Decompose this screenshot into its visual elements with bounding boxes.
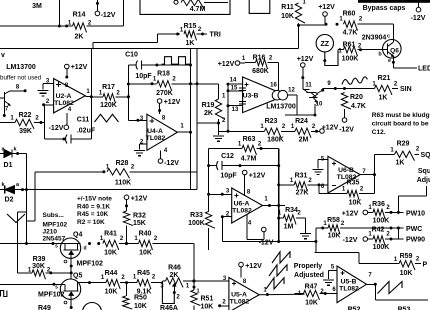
- svg-text:R21: R21: [378, 75, 391, 82]
- wire: [359, 263, 399, 265]
- svg-text:100K: 100K: [188, 220, 205, 227]
- svg-text:R31: R31: [295, 173, 308, 180]
- wire: [71, 138, 91, 140]
- svg-text:MPF102: MPF102: [38, 292, 65, 299]
- svg-text:4.7M: 4.7M: [241, 156, 257, 163]
- diode D1: [0, 153, 4, 155]
- op-amp U6-A: [232, 188, 263, 223]
- svg-text:e: e: [388, 58, 391, 64]
- wire pin2: [220, 305, 229, 307]
- svg-text:R40: R40: [139, 231, 152, 238]
- +12V terminal: [239, 262, 244, 267]
- resistor R17: [103, 94, 116, 104]
- wire: [398, 195, 426, 197]
- svg-text:10K: 10K: [104, 250, 117, 257]
- svg-text:R45 = 10K: R45 = 10K: [77, 211, 109, 218]
- wire pin3: [209, 193, 232, 195]
- resistor 4.7M: [181, 0, 204, 9]
- svg-text:R51: R51: [201, 296, 214, 303]
- wire: [12, 153, 26, 155]
- wire: [338, 49, 344, 51]
- svg-text:11: 11: [305, 83, 312, 89]
- wire: [157, 33, 180, 35]
- wire: [281, 130, 295, 132]
- svg-text:U2-A: U2-A: [56, 93, 72, 100]
- wire: [43, 105, 45, 139]
- wire pin4: [160, 150, 162, 158]
- wire: [397, 196, 399, 212]
- svg-text:PWC: PWC: [406, 226, 422, 233]
- wire: [279, 217, 284, 219]
- svg-text:D2: D2: [5, 197, 14, 204]
- square wave symbol: [162, 57, 191, 65]
- wire: [46, 272, 72, 274]
- wire U6-A out: [263, 205, 286, 207]
- triangle wave symbol: [95, 114, 119, 122]
- -12V terminal: [262, 227, 267, 232]
- svg-text:R52: R52: [348, 307, 361, 310]
- wire bus: [208, 149, 210, 212]
- svg-text:12: 12: [288, 88, 295, 94]
- svg-text:10K: 10K: [134, 303, 147, 310]
- ground: [323, 279, 334, 281]
- svg-text:+12V: +12V: [218, 61, 235, 68]
- svg-text:D1: D1: [4, 162, 13, 169]
- bus wire: [0, 48, 299, 50]
- svg-text:+12V: +12V: [297, 56, 314, 63]
- svg-text:J210: J210: [43, 229, 58, 236]
- svg-text:+12V: +12V: [71, 64, 88, 71]
- wire: [314, 252, 359, 254]
- wire: [305, 218, 307, 233]
- wire: [0, 25, 73, 27]
- resistor R58: [328, 225, 340, 235]
- wire U4-A out: [177, 131, 190, 133]
- svg-text:U4-A: U4-A: [147, 128, 163, 135]
- resistor R61: [344, 47, 358, 57]
- op-amp U5-A: [229, 278, 259, 310]
- svg-text:100K: 100K: [342, 56, 359, 63]
- wire: [320, 293, 338, 295]
- wire: [385, 211, 404, 213]
- wire: [58, 0, 60, 26]
- svg-text:R15: R15: [184, 23, 197, 30]
- svg-text:C12: C12: [221, 153, 234, 160]
- +12V terminal: [65, 64, 70, 69]
- ground: [134, 150, 145, 152]
- -12V terminal: [95, 11, 100, 16]
- svg-text:U3-B: U3-B: [243, 93, 259, 100]
- resistor R21: [375, 85, 392, 95]
- svg-text:R17: R17: [102, 84, 115, 91]
- svg-text:v: v: [1, 52, 5, 59]
- svg-text:-12V: -12V: [259, 240, 274, 247]
- wire: [70, 258, 72, 279]
- svg-text:R19: R19: [202, 102, 215, 109]
- wire pin5: [329, 269, 338, 271]
- wire: [296, 217, 306, 219]
- wire: [122, 0, 124, 26]
- wire: [374, 284, 376, 300]
- diode D2: [0, 189, 5, 191]
- wire U5-A out: [259, 293, 304, 296]
- svg-text:2M: 2M: [299, 137, 309, 144]
- component box: [140, 0, 230, 14]
- wire bus: [190, 49, 192, 190]
- chevron waveform mark: [7, 214, 25, 223]
- wire: [358, 23, 394, 25]
- wire: [0, 122, 15, 124]
- resistor R14: [73, 23, 87, 33]
- svg-text:R60: R60: [343, 11, 356, 18]
- +12V terminal: [157, 99, 162, 104]
- svg-text:10K: 10K: [139, 250, 152, 257]
- svg-text:buffer not used: buffer not used: [0, 75, 42, 82]
- wire: [208, 228, 210, 250]
- resistor R45: [137, 279, 151, 289]
- svg-text:ZZ: ZZ: [321, 41, 330, 48]
- wire pin2: [222, 216, 231, 218]
- svg-text:s: s: [55, 244, 58, 250]
- resistor R32: [123, 211, 133, 226]
- svg-text:100K: 100K: [373, 218, 390, 225]
- svg-text:R24: R24: [295, 118, 308, 125]
- svg-text:s: s: [55, 285, 58, 291]
- wire U2-A out: [85, 96, 91, 98]
- wire: [285, 114, 315, 116]
- panel pot circle: [83, 303, 102, 310]
- svg-text:C11: C11: [77, 117, 90, 124]
- svg-text:13: 13: [232, 107, 239, 113]
- wire gate Q4: [0, 243, 81, 245]
- wire: [358, 253, 360, 264]
- svg-text:4.7M: 4.7M: [190, 6, 206, 13]
- svg-text:R63 must be kludged: R63 must be kludged: [372, 112, 430, 119]
- -12V terminal: [418, 0, 420, 7]
- wire: [35, 171, 104, 173]
- svg-text:R59: R59: [400, 253, 413, 260]
- svg-text:Adjusted: Adjusted: [294, 272, 324, 279]
- svg-text:-12V: -12V: [101, 12, 116, 19]
- svg-text:R36: R36: [372, 201, 385, 208]
- wire pin13: [228, 105, 243, 107]
- jack ZZ: [316, 35, 333, 52]
- wire: [374, 154, 376, 193]
- svg-text:2K: 2K: [204, 110, 213, 117]
- wire bus: [90, 49, 92, 140]
- potentiometer R46 2K: [166, 278, 184, 288]
- resistor R31: [294, 182, 307, 192]
- wire: [116, 96, 129, 98]
- svg-text:R34: R34: [285, 207, 298, 214]
- svg-text:+12V: +12V: [342, 211, 359, 218]
- svg-text:R46A: R46A: [160, 305, 178, 310]
- op-amp U2-A: [54, 79, 86, 113]
- resistor R50: [123, 296, 133, 309]
- wire: [219, 130, 265, 132]
- svg-text:+12V: +12V: [245, 263, 262, 270]
- svg-text:.02uF: .02uF: [77, 128, 96, 135]
- wire U6-B out: [360, 174, 374, 176]
- svg-text:1: 1: [197, 289, 200, 295]
- svg-text:-12V: -12V: [164, 160, 179, 167]
- svg-text:10K: 10K: [105, 289, 118, 296]
- wire: [197, 122, 219, 124]
- svg-text:10K: 10K: [328, 233, 341, 240]
- op-amp U4-A: [147, 114, 178, 150]
- svg-text:Q5: Q5: [73, 273, 82, 280]
- wire: [315, 228, 317, 253]
- resistor R20: [341, 93, 351, 110]
- resistor R39: [32, 270, 46, 280]
- wire: [340, 227, 404, 229]
- -12V terminal: [342, 118, 347, 123]
- svg-text:R33: R33: [190, 212, 203, 219]
- svg-text:c: c: [387, 34, 390, 40]
- wire bus: [278, 149, 280, 242]
- wire: [323, 88, 375, 90]
- sawtooth symbol: [378, 282, 403, 294]
- svg-text:C10: C10: [125, 52, 138, 59]
- resistor R51: [191, 290, 201, 306]
- wire: [87, 25, 124, 27]
- svg-text:100K: 100K: [373, 244, 390, 251]
- wire: [222, 165, 279, 167]
- svg-text:TL082: TL082: [232, 208, 252, 215]
- wire to Q6 base: [358, 49, 388, 51]
- op-amp U5-B: [337, 266, 367, 303]
- svg-text:R49: R49: [38, 305, 51, 310]
- wire: [316, 227, 328, 229]
- svg-text:TRI: TRI: [210, 32, 221, 39]
- resistor R47: [304, 290, 320, 300]
- wire: [392, 24, 394, 37]
- svg-text:15K: 15K: [133, 220, 146, 227]
- wire: [318, 185, 320, 194]
- svg-text:+12V: +12V: [249, 173, 266, 180]
- wire: [299, 24, 327, 26]
- wire: [392, 56, 394, 68]
- wire pin16: [277, 63, 279, 92]
- wire gate Q5: [0, 283, 65, 285]
- svg-text:MPF102: MPF102: [43, 222, 68, 229]
- wire: [70, 299, 72, 308]
- wire: [26, 220, 35, 222]
- svg-text:R45: R45: [137, 270, 150, 277]
- wire: [172, 83, 219, 85]
- svg-text:2K: 2K: [75, 34, 84, 41]
- svg-text:+/-15V note: +/-15V note: [77, 196, 112, 203]
- resistor R24: [295, 128, 311, 138]
- svg-text:Q6: Q6: [390, 48, 399, 55]
- wire: [120, 282, 137, 284]
- resistor R22: [15, 119, 34, 129]
- svg-text:LED: LED: [418, 66, 430, 73]
- wire: [221, 217, 223, 242]
- svg-text:LM13700: LM13700: [266, 104, 296, 111]
- wire to LED: [393, 67, 417, 69]
- sine wave symbol: [342, 77, 367, 85]
- svg-text:1K: 1K: [379, 95, 388, 102]
- resistor R59: [399, 261, 415, 271]
- svg-text:circuit board to be pa: circuit board to be pa: [372, 121, 430, 128]
- wire: [14, 189, 197, 191]
- svg-text:Subs...: Subs...: [43, 212, 65, 219]
- svg-text:R32: R32: [133, 213, 146, 220]
- svg-text:R58: R58: [327, 217, 340, 224]
- wire: [426, 186, 428, 196]
- svg-text:Adju: Adju: [417, 177, 430, 184]
- svg-text:-12V: -12V: [343, 237, 358, 244]
- resistor R60: [344, 21, 358, 31]
- svg-text:30K: 30K: [32, 263, 45, 270]
- svg-text:-12V: -12V: [49, 125, 64, 132]
- wire: [128, 64, 135, 66]
- resistor R29: [395, 151, 415, 161]
- svg-text:R39: R39: [33, 256, 46, 263]
- op-amp U6-B: [328, 156, 360, 193]
- wire pin2: [44, 104, 54, 106]
- wire: [359, 193, 375, 195]
- wire: [209, 148, 242, 150]
- svg-text:R2 = 10K: R2 = 10K: [77, 219, 105, 226]
- svg-text:R40 = 9.1K: R40 = 9.1K: [77, 204, 110, 211]
- resistor R18: [157, 81, 172, 91]
- svg-text:16: 16: [270, 83, 277, 89]
- wire: [92, 43, 94, 49]
- wire: [130, 171, 198, 173]
- svg-text:R29: R29: [397, 141, 410, 148]
- wire pin14: [228, 83, 243, 85]
- ground: [38, 90, 49, 92]
- svg-text:R18: R18: [157, 71, 170, 78]
- wire pin5: [318, 159, 328, 161]
- svg-text:TL082: TL082: [54, 100, 74, 107]
- wire: [294, 293, 303, 295]
- svg-text:TL082: TL082: [146, 135, 166, 142]
- wire: [80, 282, 106, 284]
- svg-text:180K: 180K: [267, 137, 284, 144]
- wire: [311, 130, 320, 132]
- svg-text:-12V: -12V: [411, 15, 426, 22]
- capacitor C11 .02uF: [66, 135, 68, 144]
- wire: [119, 243, 139, 245]
- +12V terminal: [363, 210, 368, 215]
- capacitor C12 10pF: [217, 161, 219, 170]
- svg-text:1M: 1M: [284, 224, 294, 231]
- svg-text:R46: R46: [168, 265, 181, 272]
- +12V terminal: [320, 129, 325, 134]
- svg-text:-12V: -12V: [339, 127, 354, 134]
- resistor R11: [295, 3, 305, 23]
- svg-text:PW10: PW10: [406, 211, 425, 218]
- svg-text:10K: 10K: [400, 270, 413, 277]
- svg-text:39K: 39K: [19, 128, 32, 135]
- pot wiper: [173, 285, 175, 293]
- svg-text:R63: R63: [243, 136, 256, 143]
- wire: [397, 228, 399, 239]
- resistor R40: [139, 240, 153, 250]
- svg-text:Q4: Q4: [73, 232, 82, 239]
- wire: [218, 84, 220, 99]
- svg-text:PW90: PW90: [406, 237, 425, 244]
- svg-text:+12V: +12V: [164, 99, 181, 106]
- svg-text:270K: 270K: [156, 90, 173, 97]
- bypass caps black bar: [358, 0, 430, 3]
- -12V terminal: [158, 159, 163, 164]
- wire: [222, 241, 316, 243]
- resistor R34: [283, 215, 296, 225]
- wire bus: [196, 49, 198, 190]
- svg-text:MPF102: MPF102: [77, 261, 104, 268]
- resistor R23: [265, 128, 282, 138]
- svg-text:+12V: +12V: [322, 125, 339, 132]
- resistor R63: [242, 145, 257, 155]
- svg-text:R14: R14: [73, 12, 86, 19]
- svg-text:4.7K: 4.7K: [351, 103, 366, 110]
- wire: [25, 154, 27, 213]
- ground: [213, 135, 224, 137]
- +12V terminal: [124, 195, 129, 200]
- square wave symbol: [1, 291, 7, 297]
- wire: [308, 184, 328, 186]
- svg-text:R42: R42: [372, 227, 385, 234]
- wire: [183, 280, 194, 282]
- resistor R42: [373, 236, 385, 246]
- wire pin2: [140, 143, 147, 145]
- wire pin4: [66, 113, 68, 125]
- wire: [151, 282, 163, 284]
- sawtooth symbols: [272, 252, 290, 263]
- wire: [16, 212, 18, 273]
- svg-text:Properly: Properly: [294, 263, 323, 270]
- svg-text:C12.: C12.: [372, 129, 386, 136]
- svg-text:SQR: SQR: [421, 152, 430, 159]
- ground: [300, 233, 311, 235]
- wire: [193, 244, 195, 291]
- resistor R15: [184, 31, 196, 41]
- wire: [126, 283, 128, 296]
- resistor R19: [215, 99, 225, 119]
- svg-text:TL082: TL082: [339, 286, 359, 293]
- wire: [162, 281, 174, 304]
- svg-text:P: P: [423, 262, 428, 269]
- svg-text:R41: R41: [104, 231, 117, 238]
- svg-text:Squ: Squ: [418, 168, 430, 175]
- +12V terminal: [235, 61, 240, 66]
- svg-text:10K: 10K: [305, 300, 318, 307]
- svg-text:2N3904: 2N3904: [362, 35, 387, 42]
- wire: [91, 96, 103, 98]
- wire: [25, 212, 27, 243]
- wire: [17, 211, 26, 213]
- wire: [128, 83, 156, 85]
- wire: [268, 62, 279, 64]
- -12V terminal: [64, 125, 69, 130]
- svg-text:R44: R44: [105, 270, 118, 277]
- wire: [156, 34, 158, 43]
- wire: [153, 243, 195, 245]
- svg-text:U5-A: U5-A: [231, 292, 247, 299]
- wire pin15: [228, 90, 243, 92]
- svg-text:Bypass caps: Bypass caps: [363, 5, 406, 12]
- wire: [126, 226, 128, 244]
- svg-text:14: 14: [230, 78, 237, 84]
- svg-text:120K: 120K: [100, 102, 117, 109]
- svg-text:10K: 10K: [349, 200, 362, 207]
- wire: [257, 148, 279, 150]
- svg-text:R53: R53: [398, 307, 411, 310]
